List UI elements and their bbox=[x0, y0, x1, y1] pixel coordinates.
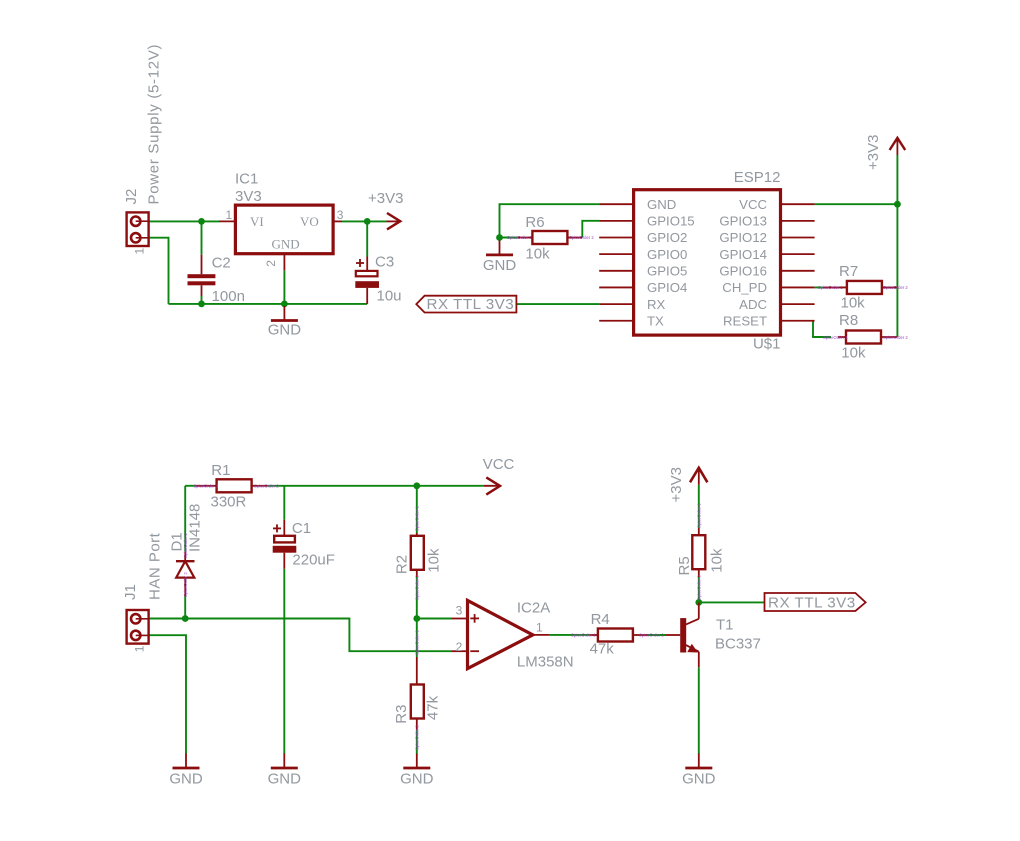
wire C3 top bbox=[366, 221, 368, 256]
junction R2/VCC bbox=[413, 482, 420, 489]
svg-text:SpiceOrder 1: SpiceOrder 1 bbox=[823, 335, 848, 340]
wire R4 to T1 base bbox=[648, 634, 666, 636]
svg-text:GPIO12: GPIO12 bbox=[719, 230, 767, 245]
svg-text:GPIO14: GPIO14 bbox=[719, 247, 767, 262]
svg-text:47k: 47k bbox=[590, 641, 615, 658]
svg-text:IC1: IC1 bbox=[235, 170, 258, 187]
svg-text:GND: GND bbox=[169, 771, 203, 788]
power +3V3 arrow right bbox=[387, 220, 401, 222]
wire T1 collector node bbox=[699, 601, 765, 603]
junction VO/C3 bbox=[364, 218, 371, 225]
wire +3V3 vertical right bbox=[896, 155, 898, 337]
wire IC1 GND pin down bbox=[283, 270, 285, 304]
svg-text:RX: RX bbox=[647, 297, 666, 312]
diode D1 bbox=[184, 552, 186, 561]
wire C1 bottom to ground bbox=[283, 569, 285, 754]
wire T1 emitter to ground bbox=[698, 667, 700, 754]
svg-text:LM358N: LM358N bbox=[517, 654, 574, 671]
svg-text:GND: GND bbox=[647, 197, 676, 212]
wire VCC to +3V3 bbox=[815, 203, 898, 205]
op-amp output lead bbox=[533, 634, 550, 636]
wire C2 top branch bbox=[201, 221, 203, 254]
IC1 pin 1 lead bbox=[219, 220, 235, 222]
wire R1 to VCC bbox=[267, 485, 484, 487]
svg-text:VCC: VCC bbox=[739, 197, 767, 212]
connector J1 bbox=[127, 610, 149, 644]
svg-text:GPIO4: GPIO4 bbox=[647, 280, 687, 295]
resistor R1 bbox=[196, 485, 217, 487]
resistor R8 bbox=[838, 336, 846, 338]
wire R3 top bbox=[416, 619, 418, 658]
svg-text:10k: 10k bbox=[709, 548, 726, 573]
wire R6 to GPIO15 bbox=[582, 221, 599, 238]
wire R2 bottom to junction bbox=[416, 577, 418, 619]
svg-text:SpiceOrder 1: SpiceOrder 1 bbox=[818, 285, 843, 290]
svg-text:R8: R8 bbox=[839, 312, 858, 329]
svg-text:ESP12: ESP12 bbox=[734, 169, 781, 186]
svg-text:SpiceOrder 2: SpiceOrder 2 bbox=[883, 285, 908, 290]
svg-text:GND: GND bbox=[268, 322, 302, 339]
resistor R4 bbox=[590, 634, 598, 636]
C3 plus sign bbox=[356, 262, 364, 264]
C1 plus sign bbox=[273, 527, 281, 529]
ground under R6 bbox=[499, 240, 501, 255]
svg-text:GND: GND bbox=[268, 771, 302, 788]
wire J2 pin1 to IC1 VI bbox=[149, 220, 219, 222]
svg-text:GPIO2: GPIO2 bbox=[647, 230, 687, 245]
svg-text:SpiceOrder 1: SpiceOrder 1 bbox=[194, 483, 219, 488]
svg-text:R1: R1 bbox=[211, 462, 230, 479]
svg-text:IC2A: IC2A bbox=[517, 600, 550, 617]
svg-text:VI: VI bbox=[250, 214, 264, 229]
power +3V3 arrow top right bbox=[896, 140, 898, 155]
wire J1 pin2 to ground bbox=[149, 635, 186, 754]
svg-text:47k: 47k bbox=[425, 695, 442, 720]
svg-text:1: 1 bbox=[536, 621, 543, 635]
svg-text:10k: 10k bbox=[841, 344, 866, 361]
ground under R3 bbox=[416, 754, 418, 769]
svg-text:BC337: BC337 bbox=[715, 636, 761, 653]
IC1 pin 2 lead bbox=[283, 254, 285, 271]
svg-text:+3V3: +3V3 bbox=[668, 467, 685, 502]
svg-text:T1: T1 bbox=[716, 617, 734, 634]
svg-text:SpiceOrder 1: SpiceOrder 1 bbox=[507, 235, 532, 240]
svg-text:ADC: ADC bbox=[739, 297, 767, 312]
svg-text:C1: C1 bbox=[292, 520, 311, 537]
svg-text:RX TTL 3V3: RX TTL 3V3 bbox=[768, 594, 856, 611]
wire R6 left bbox=[500, 237, 519, 239]
junction C2 bottom bbox=[198, 301, 205, 308]
resistor R5 bbox=[698, 528, 700, 536]
svg-text:R7: R7 bbox=[839, 263, 858, 280]
svg-text:Power Supply (5-12V): Power Supply (5-12V) bbox=[146, 44, 163, 205]
svg-text:RX TTL 3V3: RX TTL 3V3 bbox=[427, 296, 515, 313]
ground under T1 bbox=[698, 754, 700, 769]
svg-text:R2: R2 bbox=[394, 555, 411, 574]
op-amp minus mark bbox=[470, 650, 479, 652]
ESP12 right pin names bbox=[719, 197, 767, 329]
svg-text:GND: GND bbox=[682, 771, 716, 788]
wire ground rail top bbox=[169, 303, 368, 305]
module U$1 ESP12 bbox=[634, 190, 781, 335]
wire R3 bottom to ground bbox=[416, 730, 418, 754]
wire J1 pin1 to op-amp pin2 bbox=[149, 619, 452, 652]
svg-text:+3V3: +3V3 bbox=[865, 135, 882, 170]
junction divider bbox=[413, 615, 420, 622]
svg-text:3: 3 bbox=[337, 208, 344, 222]
junction J1/D1 bbox=[182, 615, 189, 622]
svg-text:SpiceOrder 2: SpiceOrder 2 bbox=[696, 575, 701, 600]
svg-text:220uF: 220uF bbox=[292, 552, 335, 569]
wire D1 to R1 bbox=[184, 486, 186, 552]
svg-text:SpiceOrder 2: SpiceOrder 2 bbox=[183, 572, 188, 597]
svg-text:SpiceOrder 2: SpiceOrder 2 bbox=[883, 335, 908, 340]
op-amp IC2A bbox=[468, 600, 533, 668]
svg-text:GND: GND bbox=[483, 257, 517, 274]
svg-text:U$1: U$1 bbox=[753, 336, 781, 353]
ground under J1 bbox=[185, 754, 187, 769]
svg-text:GPIO13: GPIO13 bbox=[719, 214, 767, 229]
svg-text:GPIO5: GPIO5 bbox=[647, 264, 687, 279]
svg-text:TX: TX bbox=[647, 313, 664, 328]
svg-text:SpiceOrder 1: SpiceOrder 1 bbox=[183, 533, 188, 558]
svg-text:IN4148: IN4148 bbox=[187, 504, 204, 552]
svg-text:R5: R5 bbox=[676, 556, 693, 575]
svg-text:C2: C2 bbox=[212, 255, 231, 272]
wire C1 top bbox=[283, 486, 285, 520]
voltage regulator IC1 bbox=[235, 205, 333, 254]
svg-text:J1: J1 bbox=[122, 584, 139, 600]
resistor R7 bbox=[815, 286, 823, 288]
svg-text:3: 3 bbox=[456, 603, 463, 617]
IC1 pin 3 lead bbox=[333, 220, 342, 222]
svg-text:SpiceOrder 2: SpiceOrder 2 bbox=[414, 725, 419, 750]
capacitor C2 bbox=[201, 255, 203, 275]
svg-text:HAN Port: HAN Port bbox=[147, 532, 164, 600]
svg-text:SpiceOrder 2: SpiceOrder 2 bbox=[569, 235, 594, 240]
wire ESP GND pin to ground bbox=[500, 204, 600, 237]
junction T1 collector bbox=[695, 599, 702, 606]
wire IC1 VO to +3V3 bbox=[342, 220, 387, 222]
svg-text:1: 1 bbox=[133, 248, 147, 255]
op-amp plus mark bbox=[470, 617, 479, 619]
svg-text:100n: 100n bbox=[212, 288, 245, 305]
resistor R6 bbox=[518, 237, 532, 239]
op-amp pin3 lead bbox=[452, 618, 467, 620]
wire RESET jog to R8 bbox=[813, 321, 831, 337]
svg-text:1: 1 bbox=[133, 645, 147, 652]
svg-text:R4: R4 bbox=[591, 611, 610, 628]
svg-text:SpiceOrder 2: SpiceOrder 2 bbox=[254, 483, 279, 488]
wire R2 top bbox=[416, 486, 418, 533]
svg-text:10k: 10k bbox=[525, 246, 550, 263]
net label RX TTL 3V3 left bbox=[416, 296, 516, 313]
ESP12 right pin leads bbox=[781, 204, 815, 321]
capacitor C1 bbox=[283, 520, 285, 536]
svg-text:SpiceOrder 1: SpiceOrder 1 bbox=[414, 630, 419, 655]
capacitor C3 bbox=[366, 257, 368, 272]
net label RX TTL 3V3 right bbox=[765, 593, 866, 611]
ESP12 left pin names bbox=[647, 197, 695, 329]
svg-text:SpiceOrder 1: SpiceOrder 1 bbox=[414, 506, 419, 531]
power +3V3 arrow above R5 bbox=[698, 470, 700, 485]
svg-text:2: 2 bbox=[456, 640, 463, 654]
svg-text:GND: GND bbox=[400, 771, 434, 788]
wire J2 pin2 to ground rail bbox=[149, 238, 169, 304]
svg-text:10k: 10k bbox=[841, 295, 866, 312]
junction R6/ground bbox=[496, 234, 503, 241]
svg-text:RESET: RESET bbox=[723, 313, 767, 328]
svg-text:GND: GND bbox=[272, 237, 300, 252]
junction IC1 GND rail bbox=[281, 301, 288, 308]
resistor R2 bbox=[416, 533, 418, 536]
wire op-amp output to R4 bbox=[550, 634, 590, 636]
svg-text:R3: R3 bbox=[393, 705, 410, 724]
wire RX TTL 3V3 to RX pin bbox=[516, 303, 599, 305]
ground under C1 bbox=[283, 754, 285, 769]
svg-text:10k: 10k bbox=[426, 548, 443, 573]
power VCC arrow bbox=[484, 485, 500, 487]
svg-text:GPIO0: GPIO0 bbox=[647, 247, 687, 262]
connector J2 bbox=[127, 212, 149, 246]
svg-text:+3V3: +3V3 bbox=[368, 190, 403, 207]
svg-text:VO: VO bbox=[300, 214, 319, 229]
junction J2/C2 bbox=[198, 218, 205, 225]
ground under IC1 bbox=[283, 306, 285, 321]
wire divider to op-amp pin3 bbox=[417, 618, 452, 620]
svg-text:SpiceOrder 2: SpiceOrder 2 bbox=[414, 575, 419, 600]
svg-text:SpiceOrder 1: SpiceOrder 1 bbox=[696, 503, 701, 528]
svg-text:GPIO15: GPIO15 bbox=[647, 214, 695, 229]
svg-text:J2: J2 bbox=[123, 189, 140, 205]
svg-text:R6: R6 bbox=[525, 214, 544, 231]
svg-text:SpiceOrder 2: SpiceOrder 2 bbox=[639, 633, 664, 638]
op-amp pin2 lead bbox=[452, 650, 467, 652]
svg-text:10u: 10u bbox=[377, 288, 402, 305]
ESP12 left pin leads bbox=[599, 204, 633, 321]
svg-text:1: 1 bbox=[226, 208, 233, 222]
svg-text:CH_PD: CH_PD bbox=[722, 280, 767, 295]
wire R5 top +3V3 bbox=[698, 485, 700, 528]
svg-text:SpiceOrder 1: SpiceOrder 1 bbox=[571, 633, 596, 638]
svg-text:2: 2 bbox=[264, 260, 278, 267]
svg-text:GPIO16: GPIO16 bbox=[719, 264, 767, 279]
resistor R3 bbox=[416, 657, 418, 685]
svg-text:3V3: 3V3 bbox=[235, 188, 262, 205]
svg-text:330R: 330R bbox=[211, 494, 247, 511]
svg-text:C3: C3 bbox=[375, 254, 394, 271]
svg-text:VCC: VCC bbox=[483, 456, 515, 473]
junction VCC bbox=[894, 201, 901, 208]
transistor T1 bbox=[666, 634, 680, 636]
